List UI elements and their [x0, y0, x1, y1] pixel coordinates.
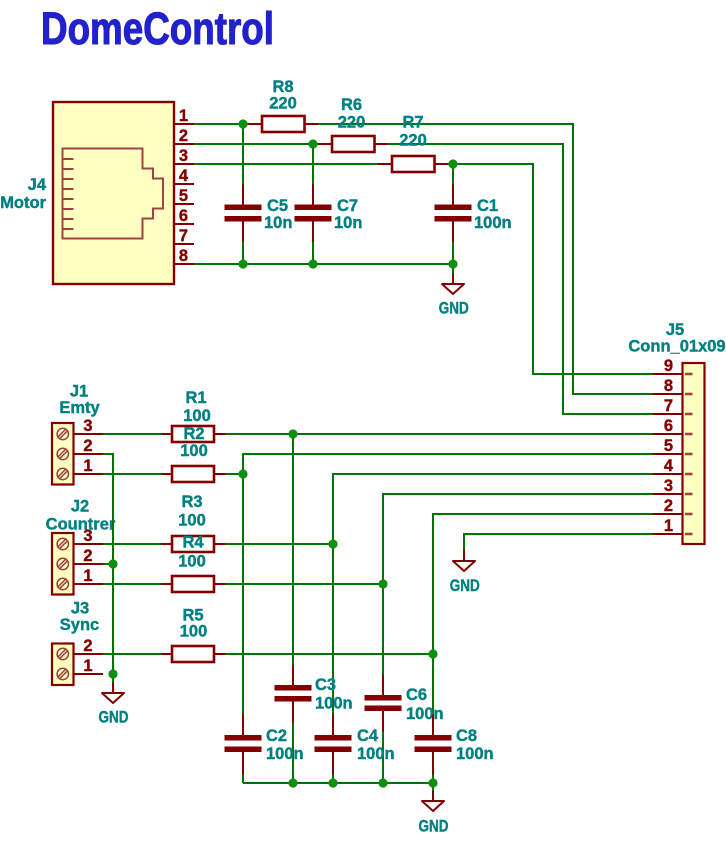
junction node J4.1/C5 — [238, 119, 247, 128]
svg-text:R1: R1 — [185, 389, 206, 407]
svg-text:5: 5 — [179, 187, 188, 205]
svg-text:J2: J2 — [71, 498, 89, 516]
svg-text:8: 8 — [664, 377, 673, 395]
svg-text:GND: GND — [450, 577, 480, 595]
wire C1 vertical — [452, 164, 454, 264]
svg-text:GND: GND — [99, 709, 129, 727]
J5 pin 1 — [653, 517, 693, 535]
capacitor C6 — [365, 675, 444, 732]
wire R4 to node — [226, 583, 384, 585]
J5 value label Conn_01x09 — [628, 338, 725, 356]
J2 pin 1 — [74, 567, 104, 585]
svg-text:6: 6 — [664, 417, 673, 435]
svg-text:C7: C7 — [337, 197, 358, 215]
svg-text:100: 100 — [178, 512, 206, 530]
svg-text:C3: C3 — [315, 676, 336, 694]
junction node C6/bottom bus — [378, 778, 387, 787]
svg-text:2: 2 — [664, 497, 673, 515]
J3 reference label — [71, 600, 89, 618]
svg-text:100n: 100n — [456, 745, 494, 763]
J5 pin 6 — [653, 417, 693, 435]
svg-text:C4: C4 — [357, 727, 379, 745]
svg-text:100: 100 — [180, 623, 208, 641]
svg-text:2: 2 — [83, 547, 92, 565]
wire J2.3 to R3 — [103, 543, 162, 545]
J1 value label Emty — [59, 399, 100, 417]
svg-text:3: 3 — [664, 477, 673, 495]
svg-text:1: 1 — [179, 107, 188, 125]
J3 screw terminal 2 — [57, 648, 68, 659]
svg-text:C6: C6 — [406, 686, 427, 704]
junction node J2.2 gnd rail — [108, 559, 117, 568]
wire R2 to node — [226, 473, 244, 475]
svg-text:1: 1 — [83, 567, 92, 585]
J1 screw terminal 2 — [57, 448, 68, 459]
capacitor C2 — [225, 715, 304, 775]
wire R3 to node — [226, 543, 334, 545]
connector J4 RJ45 jack symbol — [63, 149, 164, 239]
svg-text:C8: C8 — [456, 727, 477, 745]
svg-text:7: 7 — [664, 397, 673, 415]
wire R6 to J5.7 — [388, 144, 653, 414]
J5 pin 5 — [653, 437, 693, 455]
junction node J4.2/C7 — [308, 139, 317, 148]
J4 pin 3 — [174, 147, 194, 165]
schematic title — [41, 3, 274, 54]
junction node R7/C1 — [448, 159, 457, 168]
svg-text:220: 220 — [338, 114, 366, 132]
svg-text:R6: R6 — [341, 96, 362, 114]
J1 pin 3 — [74, 417, 104, 435]
connector J1 body — [52, 423, 74, 485]
svg-text:100n: 100n — [406, 705, 444, 723]
J2 screw terminal 2 — [57, 558, 68, 569]
connector J3 body — [52, 644, 74, 686]
connector J4 body — [53, 102, 174, 284]
wire J2.2 to gnd rail — [103, 563, 113, 565]
J1 pin 2 — [74, 437, 104, 455]
junction node C8/bottom bus — [428, 778, 437, 787]
svg-text:Countrer: Countrer — [46, 516, 116, 534]
J5 pin 4 — [653, 457, 693, 475]
junction node C3/bottom bus — [288, 778, 297, 787]
wire C3 vertical — [292, 434, 294, 783]
svg-text:6: 6 — [179, 207, 188, 225]
wire J1.3 to R1 — [103, 433, 162, 435]
J4 pin 8 — [174, 247, 194, 265]
ground symbol GND (J5.1) — [450, 534, 480, 595]
junction node C1/gnd bus — [448, 259, 457, 268]
wire J3.2 to R5 — [103, 653, 162, 655]
capacitor C3 — [275, 665, 353, 723]
wire R1 to J5.6 — [226, 433, 654, 435]
wire J4.1 to R8 — [194, 123, 248, 125]
svg-text:GND: GND — [419, 818, 449, 836]
svg-text:J3: J3 — [71, 600, 89, 618]
J5 pin 9 — [653, 357, 693, 375]
capacitor C4 — [315, 715, 395, 775]
junction node R1/C3 — [288, 429, 297, 438]
J5 reference label — [666, 321, 684, 339]
svg-text:10n: 10n — [334, 214, 362, 232]
svg-text:GND: GND — [439, 300, 469, 318]
connector J5 body — [683, 363, 705, 544]
J2 value label Countrer — [46, 516, 116, 534]
junction node R5/C8 — [428, 649, 437, 658]
wire R5 to node — [226, 653, 434, 655]
J3 value label Sync — [60, 616, 99, 634]
junction node R4/C6 — [378, 579, 387, 588]
resistor R5 — [162, 607, 226, 663]
svg-text:9: 9 — [664, 357, 673, 375]
ground symbol GND (bottom bus) — [419, 783, 449, 836]
J2 screw terminal 1 — [57, 578, 68, 589]
wire C5 vertical — [242, 124, 244, 264]
wire J5.4 down to R3 node — [333, 474, 653, 544]
junction node C7/gnd bus — [308, 259, 317, 268]
J5 pin 7 — [653, 397, 693, 415]
svg-text:2: 2 — [83, 437, 92, 455]
svg-text:J4: J4 — [28, 176, 47, 194]
svg-text:1: 1 — [83, 657, 92, 675]
resistor R6 — [318, 96, 388, 152]
svg-text:1: 1 — [83, 457, 92, 475]
J4 pin 1 — [174, 107, 194, 125]
svg-text:7: 7 — [179, 227, 188, 245]
svg-text:R4: R4 — [182, 534, 204, 552]
junction node R2/C2 — [238, 469, 247, 478]
resistor R3 — [162, 493, 226, 552]
wire R7 to J5.9 — [448, 164, 653, 374]
svg-text:100n: 100n — [357, 745, 395, 763]
ground symbol GND (top, C1) — [439, 264, 469, 318]
connector J2 body — [52, 533, 74, 595]
svg-text:10n: 10n — [264, 214, 292, 232]
svg-text:C2: C2 — [266, 727, 287, 745]
J1 screw terminal 1 — [57, 468, 68, 479]
wire J4.2 to R6 — [194, 143, 318, 145]
svg-text:3: 3 — [83, 417, 92, 435]
J4 value label Motor — [0, 194, 46, 212]
svg-text:8: 8 — [179, 247, 188, 265]
svg-text:2: 2 — [179, 127, 188, 145]
wire C7 vertical — [312, 144, 314, 264]
svg-text:J1: J1 — [70, 383, 88, 401]
wire J5.3 down to R4 node — [383, 494, 653, 584]
capacitor C7 — [295, 184, 363, 242]
J4 pin 2 — [174, 127, 194, 145]
wire C8 vertical — [432, 654, 434, 783]
junction node J3.1 gnd rail — [108, 669, 117, 678]
J2 pin 3 — [74, 527, 104, 545]
J4 pin 4 — [174, 167, 194, 185]
J3 pin 2 — [74, 637, 104, 655]
svg-text:3: 3 — [179, 147, 188, 165]
wire J1.1 to R2 — [103, 473, 162, 475]
svg-text:2: 2 — [83, 637, 92, 655]
resistor R8 — [248, 78, 318, 132]
wire C2 vertical — [242, 454, 244, 783]
resistor R2 — [162, 425, 226, 482]
J4 reference label — [28, 176, 47, 194]
wire J5.2 down to R5 node — [433, 514, 653, 654]
svg-text:Sync: Sync — [60, 616, 99, 634]
svg-text:100n: 100n — [266, 745, 304, 763]
wire J5.1 to GND — [464, 534, 653, 550]
svg-text:R3: R3 — [181, 493, 202, 511]
resistor R4 — [162, 534, 226, 593]
J1 screw terminal 3 — [57, 428, 68, 439]
wire node to J5.5 — [243, 454, 653, 474]
J3 pin 1 — [74, 657, 104, 675]
svg-text:220: 220 — [269, 95, 297, 113]
svg-text:J5: J5 — [666, 321, 684, 339]
svg-text:100: 100 — [180, 442, 208, 460]
J2 reference label — [71, 498, 89, 516]
svg-text:100n: 100n — [474, 214, 512, 232]
wire R8 to J5.8 — [318, 124, 653, 394]
J3 screw terminal 1 — [57, 668, 68, 679]
wire bottom ground bus — [243, 782, 433, 784]
svg-text:1: 1 — [664, 517, 673, 535]
svg-text:4: 4 — [664, 457, 674, 475]
svg-text:100n: 100n — [315, 695, 353, 713]
J5 pin 3 — [653, 477, 693, 495]
svg-text:4: 4 — [179, 167, 189, 185]
svg-text:R2: R2 — [183, 425, 204, 443]
capacitor C5 — [225, 184, 293, 242]
svg-text:220: 220 — [399, 132, 427, 150]
junction node R3/C4 — [328, 539, 337, 548]
J2 screw terminal 3 — [57, 538, 68, 549]
wire J1.2 down to J3.1 (gnd rail) — [103, 454, 113, 674]
J1 reference label — [70, 383, 88, 401]
svg-text:100: 100 — [183, 407, 211, 425]
svg-text:Motor: Motor — [0, 194, 46, 212]
wire J2.1 to R4 — [103, 583, 162, 585]
capacitor C1 — [435, 184, 512, 242]
svg-text:Emty: Emty — [59, 399, 100, 417]
J5 pin 8 — [653, 377, 693, 395]
wire J4.3 to R7 — [194, 163, 378, 165]
capacitor C8 — [415, 715, 494, 775]
svg-text:Conn_01x09: Conn_01x09 — [628, 338, 725, 356]
junction node C5/gnd bus — [238, 259, 247, 268]
wire J4.8 ground bus — [194, 263, 453, 265]
ground symbol GND (J3 rail) — [99, 674, 129, 727]
wire C6 vertical — [382, 584, 384, 783]
J4 pin 6 — [174, 207, 194, 225]
svg-text:C5: C5 — [267, 197, 288, 215]
wire C4 vertical — [332, 544, 334, 783]
svg-text:100: 100 — [178, 553, 206, 571]
resistor R7 — [378, 114, 448, 173]
svg-text:R7: R7 — [402, 114, 423, 132]
svg-text:C1: C1 — [477, 197, 498, 215]
svg-text:DomeControl: DomeControl — [41, 3, 274, 54]
J4 pin 5 — [174, 187, 194, 205]
junction node C4/bottom bus — [328, 778, 337, 787]
svg-text:R8: R8 — [272, 78, 293, 96]
svg-text:5: 5 — [664, 437, 673, 455]
J2 pin 2 — [74, 547, 104, 565]
svg-text:3: 3 — [83, 527, 92, 545]
J5 pin 2 — [653, 497, 693, 515]
J4 pin 7 — [174, 227, 194, 245]
J1 pin 1 — [74, 457, 104, 475]
resistor R1 — [162, 389, 226, 442]
